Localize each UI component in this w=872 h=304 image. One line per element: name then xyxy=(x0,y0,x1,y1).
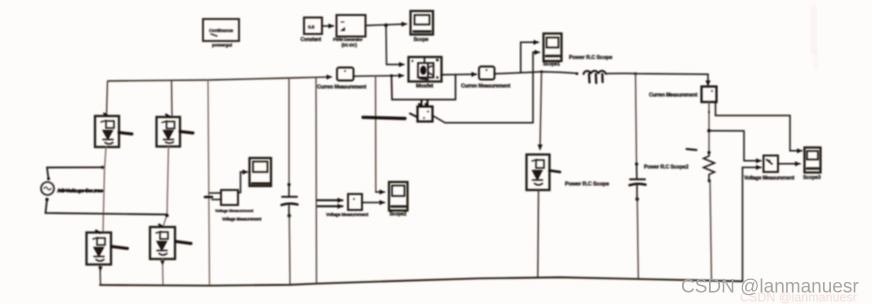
node gate junction xyxy=(384,23,388,27)
current measurement CM1 xyxy=(317,68,367,91)
capacitor C1 (DC link) xyxy=(282,78,298,285)
wire inductor to load corner xyxy=(607,73,709,85)
wire current signal to scope1 xyxy=(521,42,539,73)
wire DC link left vertical xyxy=(208,80,210,286)
wire CM1 to mosfet d xyxy=(354,75,404,78)
wire mosfet s to CM2 xyxy=(442,73,477,75)
current measurement CM2 xyxy=(461,67,511,90)
svg-text:Scope2: Scope2 xyxy=(390,212,407,218)
current measurement CM3 (load) xyxy=(649,87,717,103)
wire VM3 minus to bottom bus xyxy=(743,167,762,281)
diode D5 freewheel xyxy=(527,155,610,191)
node tap scope2 xyxy=(376,76,385,192)
diode D2 xyxy=(157,80,194,146)
top bus wire xyxy=(108,77,332,81)
wire CM2 to inductor bus xyxy=(495,72,577,74)
scan artifact pink streak xyxy=(810,6,817,54)
svg-text:Voltage Measurement: Voltage Measurement xyxy=(744,176,795,182)
svg-text:Constant: Constant xyxy=(301,37,322,43)
voltage measurement VM1 xyxy=(205,172,262,222)
diode D3 xyxy=(87,231,128,265)
svg-text:Power R.C Scope2: Power R.C Scope2 xyxy=(644,165,689,171)
diode D1 xyxy=(95,81,132,147)
svg-text:Voltage Measurement: Voltage Measurement xyxy=(222,217,262,222)
wire gate to mosfet g xyxy=(386,25,404,64)
node output cap junction xyxy=(634,72,637,75)
wire VM3 plus tap xyxy=(709,131,761,161)
svg-text:Scope3: Scope3 xyxy=(803,175,821,181)
wire DC link right vertical xyxy=(315,77,318,283)
scope Scope3 xyxy=(803,148,821,182)
svg-text:Scope: Scope xyxy=(414,37,429,43)
constant block xyxy=(301,18,323,44)
voltage measurement VM3 xyxy=(744,156,800,182)
scope Scope2 (dc link) xyxy=(250,158,272,186)
svg-text:Curren Measurement: Curren Measurement xyxy=(649,93,698,99)
AC voltage source xyxy=(41,177,103,201)
scope Scope (top) xyxy=(411,11,434,43)
diode D4 xyxy=(150,225,191,260)
svg-text:Power R.C Scope: Power R.C Scope xyxy=(569,55,612,61)
capacitor C2 (output) xyxy=(630,74,689,279)
wire AC- to right leg xyxy=(46,200,168,215)
mosfet Q1 xyxy=(409,57,442,90)
wire load branch with resistor xyxy=(707,102,711,154)
inductor L1 xyxy=(576,71,606,83)
resistor R1 xyxy=(687,149,715,281)
svg-text:Curren Measurement: Curren Measurement xyxy=(461,84,511,90)
wire load current signal to scope3 xyxy=(716,102,803,151)
voltage measurement VM Vds xyxy=(363,107,433,122)
voltage measurement VM2 xyxy=(317,194,385,217)
svg-text:CSDN @lanmanuesr: CSDN @lanmanuesr xyxy=(740,291,857,304)
svg-text:Mosfet: Mosfet xyxy=(416,84,433,90)
node vds left tap xyxy=(390,74,393,77)
svg-text:PWM Generator: PWM Generator xyxy=(333,37,363,42)
PWM generator block xyxy=(333,15,366,48)
wire vds out to scope1 xyxy=(433,52,540,123)
svg-text:Voltage Measurement: Voltage Measurement xyxy=(215,208,254,213)
svg-text:Curren Measurement: Curren Measurement xyxy=(317,85,367,91)
svg-text:(DC-DC): (DC-DC) xyxy=(342,43,358,48)
node diode branch junction xyxy=(540,70,543,73)
wire D4 to bottom bus xyxy=(160,259,164,286)
wire vds measure loop xyxy=(392,75,456,107)
wire D5 to bottom bus xyxy=(537,190,540,278)
wire right bridge leg xyxy=(163,147,169,228)
svg-text:0.5: 0.5 xyxy=(308,25,315,31)
wire pwm to scope xyxy=(366,24,407,26)
svg-text:powergui: powergui xyxy=(212,43,232,49)
wire constant to pwm xyxy=(322,25,334,27)
svg-text:Power R.C Scope: Power R.C Scope xyxy=(565,182,609,188)
svg-text:Scope1: Scope1 xyxy=(543,62,560,68)
bottom bus wire xyxy=(100,277,743,285)
scope Scope2b (output voltage) xyxy=(389,182,408,218)
scope Scope1 xyxy=(543,34,612,68)
wire left bridge leg xyxy=(103,147,106,232)
wire to freewheel diode xyxy=(540,72,542,150)
svg-text:Voltage Measurement: Voltage Measurement xyxy=(326,212,369,217)
wire D3 to bottom bus xyxy=(98,265,102,286)
wire AC+ to left leg xyxy=(47,166,104,179)
powergui block xyxy=(203,19,239,49)
svg-text:Continuous: Continuous xyxy=(209,28,234,33)
